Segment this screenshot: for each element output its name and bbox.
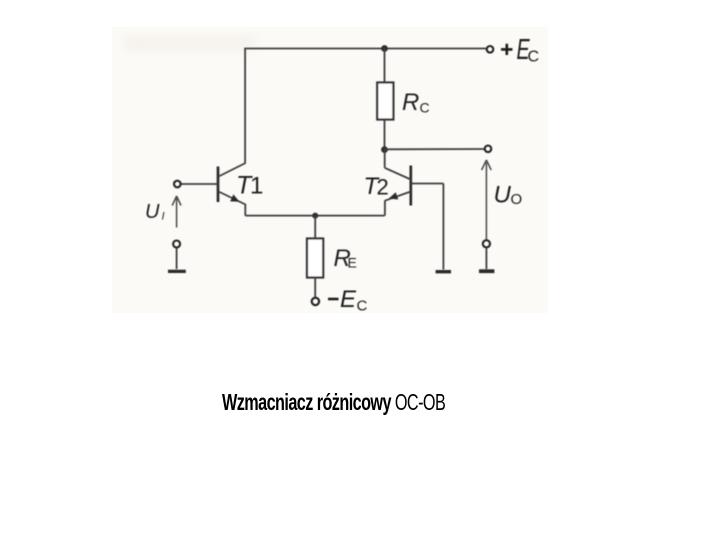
svg-text:C: C [420, 100, 430, 116]
svg-text:I: I [162, 211, 165, 223]
arrow UO [482, 160, 492, 240]
wire top supply rail [244, 48, 486, 50]
resistor RC [377, 83, 393, 120]
T2 collector drop [384, 150, 386, 168]
svg-text:O: O [511, 191, 523, 208]
label T2 [364, 173, 389, 200]
resistor RE [307, 239, 323, 278]
svg-text:E: E [348, 255, 357, 271]
wire emitter bus [245, 215, 384, 217]
label RC [402, 89, 430, 116]
svg-text:R: R [402, 89, 419, 116]
wire RC top [384, 49, 386, 83]
label UO [494, 182, 523, 209]
T1 emitter arrowhead [230, 194, 239, 201]
label RE [334, 245, 357, 272]
ground UI [168, 270, 186, 273]
transistor T1 [181, 163, 246, 216]
T1 collector diagonal [219, 163, 246, 177]
terminal -EC [312, 298, 319, 305]
label -EC [328, 286, 368, 315]
wire T1 collector riser [244, 49, 246, 164]
svg-text:U: U [494, 182, 512, 209]
T2 emitter diagonal [385, 192, 411, 201]
node collector junction [381, 146, 388, 153]
node emitter junction [312, 213, 318, 219]
terminal output top [485, 146, 492, 153]
wire RE bottom [314, 278, 316, 298]
svg-text:E: E [340, 286, 357, 313]
transistor T2 [385, 150, 444, 216]
wire T2 base to ground [442, 184, 444, 270]
terminal +EC [487, 46, 494, 53]
T2 base lead [411, 183, 444, 185]
terminal UI lower [173, 241, 180, 248]
node supply junction [381, 45, 388, 52]
terminal UO lower [483, 240, 490, 247]
T2 emitter arrowhead [389, 192, 399, 199]
T2 collector diagonal [385, 168, 411, 180]
ground UO [479, 269, 494, 273]
T2 emitter drop [384, 201, 386, 216]
svg-text:C: C [528, 49, 540, 66]
svg-text:U: U [145, 201, 160, 223]
label +EC [501, 44, 513, 55]
wire output to terminal [385, 148, 485, 150]
T1 base bar [217, 167, 220, 203]
wire UI lower to ground [176, 248, 178, 269]
label T1 [236, 172, 263, 200]
wire RE top [314, 216, 316, 239]
wire UO lower to ground [485, 248, 487, 269]
svg-text:2: 2 [377, 175, 389, 200]
T1 emitter drop [244, 204, 246, 216]
T2 base bar [409, 166, 412, 206]
wire RC bottom [384, 120, 386, 151]
T1 emitter diagonal [219, 192, 246, 205]
T1 base lead [181, 183, 218, 185]
scanned paper background [112, 27, 548, 313]
label UI [145, 201, 165, 223]
arrow UI [172, 196, 181, 228]
svg-text:1: 1 [250, 173, 263, 200]
caption [222, 391, 445, 414]
ground T2 base [436, 270, 451, 273]
svg-text:C: C [357, 298, 368, 315]
terminal UI upper [174, 181, 181, 188]
